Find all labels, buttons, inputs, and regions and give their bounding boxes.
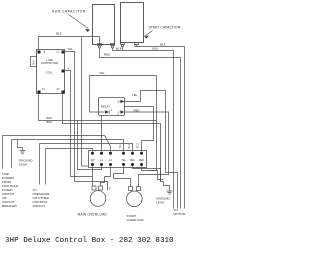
svg-text:SW: SW (90, 159, 95, 162)
svg-text:1: 1 (111, 107, 113, 111)
svg-text:T1: T1 (42, 88, 46, 91)
svg-text:YEL: YEL (67, 47, 73, 51)
svg-text:BLK: BLK (56, 32, 63, 36)
svg-text:3HP Deluxe Control Box - 282 3: 3HP Deluxe Control Box - 282 302 8310 (5, 237, 174, 245)
svg-text:BLK: BLK (47, 120, 54, 124)
svg-text:SWITCH: SWITCH (33, 204, 45, 208)
svg-text:MOTOR: MOTOR (174, 212, 186, 216)
svg-text:YEL: YEL (121, 159, 126, 162)
svg-text:OVERLOAD: OVERLOAD (127, 218, 145, 222)
svg-text:YEL: YEL (119, 143, 122, 148)
svg-text:RED: RED (139, 159, 144, 162)
svg-text:COIL: COIL (46, 71, 53, 75)
svg-text:LEAD: LEAD (19, 163, 28, 167)
svg-text:YEL: YEL (99, 71, 105, 75)
svg-text:BLK: BLK (128, 143, 131, 148)
svg-text:RED: RED (104, 53, 111, 57)
svg-text:BLK: BLK (33, 60, 36, 65)
svg-text:RELAY: RELAY (101, 105, 110, 109)
svg-text:CONTACTOR: CONTACTOR (41, 61, 58, 65)
svg-text:RED: RED (137, 143, 140, 148)
svg-text:LEAD: LEAD (156, 201, 165, 205)
svg-text:START CAPACITOR: START CAPACITOR (149, 26, 181, 30)
svg-text:B: B (44, 50, 46, 53)
svg-text:L2: L2 (109, 159, 112, 162)
svg-text:BREAKER: BREAKER (2, 204, 18, 208)
svg-text:RUN CAPACITOR: RUN CAPACITOR (52, 10, 86, 14)
svg-text:BLK: BLK (153, 47, 160, 51)
svg-text:L2: L2 (57, 50, 60, 53)
svg-text:MAIN OVERLOAD: MAIN OVERLOAD (78, 212, 108, 216)
svg-text:BLK: BLK (116, 46, 123, 50)
svg-text:2: 2 (118, 112, 120, 116)
svg-text:5: 5 (118, 99, 120, 103)
svg-text:L1: L1 (100, 159, 103, 162)
svg-text:BLK: BLK (130, 159, 135, 162)
svg-text:RED: RED (134, 108, 140, 112)
svg-text:B: B (109, 187, 111, 190)
svg-text:V: V (67, 67, 70, 71)
svg-text:T2: T2 (57, 88, 61, 91)
svg-text:BLK: BLK (160, 43, 167, 47)
svg-text:YEL: YEL (132, 93, 138, 97)
